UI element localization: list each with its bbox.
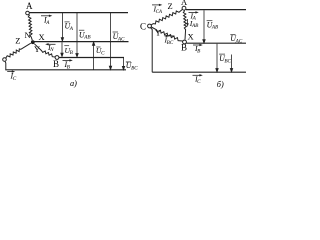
- wire C down to line C: [151, 28, 153, 72]
- wire line A: [29, 12, 128, 14]
- winding C-B (bottom edge): [151, 27, 182, 41]
- wire line B (delta): [186, 42, 246, 44]
- svg-text:UA: UA: [65, 21, 74, 31]
- star point N junction: [31, 40, 35, 44]
- svg-text:IB: IB: [64, 60, 71, 70]
- svg-text:Z: Z: [15, 36, 20, 46]
- voltage arrow U_AB: [76, 13, 78, 57]
- voltage arrow U_AC (delta, short): [230, 55, 232, 72]
- voltage arrow U_BC: [122, 58, 124, 70]
- svg-text:UB: UB: [65, 46, 74, 56]
- svg-text:UBC: UBC: [126, 61, 138, 71]
- voltage arrow U_AB (delta): [203, 10, 205, 43]
- winding B (to terminal B): [34, 44, 55, 57]
- svg-text:Z: Z: [168, 1, 173, 11]
- voltage arrow U_C (up): [92, 42, 94, 70]
- current arrow I_C (delta): [193, 74, 201, 76]
- current arrow I_A (delta): [189, 11, 197, 13]
- current arrow I_BC (left): [167, 35, 175, 37]
- label U_BC: [126, 61, 131, 63]
- label U_AC (delta): [230, 34, 235, 36]
- svg-text:а): а): [70, 79, 77, 88]
- svg-text:B: B: [53, 59, 59, 69]
- label U_AB: [79, 29, 84, 31]
- svg-text:ICA: ICA: [153, 5, 162, 15]
- current arrow I_C: [7, 71, 12, 73]
- wire line A (delta): [186, 9, 246, 11]
- voltage arrow U_AC: [109, 13, 111, 70]
- current arrow I_A: [41, 15, 50, 17]
- svg-text:б): б): [217, 80, 224, 89]
- current arrow I_B: [63, 59, 71, 61]
- label U_C: [96, 46, 100, 48]
- svg-text:IA: IA: [43, 16, 50, 26]
- terminal A (delta): [182, 6, 186, 10]
- current arrow I_AB (down): [187, 19, 189, 24]
- terminal C: [3, 58, 7, 62]
- winding A: [28, 15, 32, 41]
- voltage arrow U_BC (delta): [216, 44, 218, 72]
- terminal B (delta): [183, 40, 187, 44]
- svg-text:UAC: UAC: [230, 34, 242, 44]
- winding C-A (top edge): [151, 9, 182, 25]
- svg-text:UAB: UAB: [79, 30, 91, 40]
- wire line B: [59, 57, 124, 59]
- label U_B: [64, 45, 69, 47]
- wire from C down to line C: [4, 61, 7, 69]
- label U_AC: [113, 31, 118, 33]
- svg-text:UAB: UAB: [207, 20, 219, 30]
- svg-text:UAC: UAC: [113, 32, 125, 42]
- label U_BC (delta): [219, 53, 225, 55]
- svg-text:X: X: [188, 31, 194, 41]
- svg-text:Y: Y: [155, 27, 161, 37]
- label U_AB (delta): [207, 20, 213, 22]
- winding A-X (right edge): [183, 10, 186, 40]
- svg-text:X: X: [39, 32, 45, 42]
- current arrow I_B (delta): [193, 44, 200, 46]
- current arrow I_N (left): [48, 43, 56, 45]
- svg-text:N: N: [25, 30, 31, 40]
- wire line C: [5, 69, 126, 71]
- neutral wire N: [32, 41, 128, 43]
- wire line C (delta): [152, 71, 246, 73]
- voltage arrow U_B: [61, 42, 63, 56]
- terminal B: [55, 56, 59, 60]
- svg-text:A: A: [26, 1, 33, 11]
- terminal C (delta): [148, 24, 152, 28]
- svg-text:IC: IC: [10, 72, 17, 82]
- svg-text:UBC: UBC: [219, 54, 231, 64]
- terminal A: [26, 11, 30, 15]
- voltage arrow U_A: [61, 13, 63, 41]
- svg-text:A: A: [181, 0, 188, 7]
- svg-text:B: B: [181, 42, 187, 52]
- svg-text:UC: UC: [96, 46, 105, 56]
- label U_A: [65, 21, 70, 23]
- current arrow I_CA: [152, 4, 160, 6]
- winding C (to terminal C): [6, 43, 31, 58]
- svg-text:C: C: [140, 22, 146, 32]
